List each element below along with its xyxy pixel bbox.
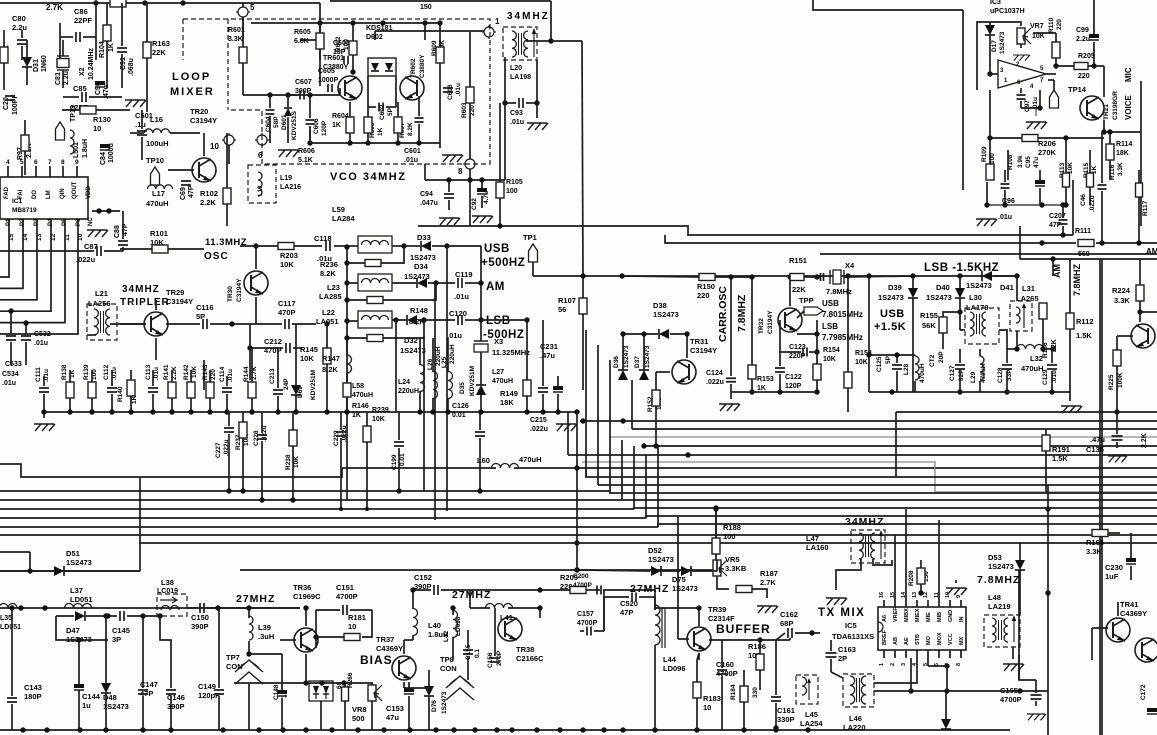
svg-text:1S2473: 1S2473 (441, 691, 448, 714)
svg-text:R203: R203 (280, 251, 298, 260)
svg-text:D601: D601 (281, 114, 288, 130)
svg-text:100uH: 100uH (146, 139, 169, 148)
svg-text:1S2473: 1S2473 (926, 293, 952, 302)
IC5 pins (883, 600, 885, 607)
svg-text:MIB: MIB (937, 612, 943, 622)
wire tr30 (255, 246, 257, 269)
svg-text:VREF: VREF (893, 607, 899, 622)
svg-text:D53: D53 (988, 553, 1002, 562)
svg-text:LM: LM (46, 190, 52, 199)
svg-text:.01u: .01u (998, 214, 1012, 221)
svg-text:C605: C605 (318, 68, 335, 75)
svg-text:R101: R101 (150, 229, 168, 238)
svg-text:.47u: .47u (1090, 435, 1105, 444)
svg-text:LA219: LA219 (988, 602, 1011, 611)
svg-text:C127: C127 (949, 365, 956, 381)
svg-text:D48: D48 (103, 693, 117, 702)
svg-text:330P: 330P (777, 715, 795, 724)
bus right y477 (586, 470, 1157, 477)
ecap C215b (553, 386, 563, 390)
svg-text:1S2473: 1S2473 (672, 584, 698, 593)
wire C86 (60, 36, 73, 38)
bus left y509 (0, 508, 634, 510)
bus left y412 (44, 411, 577, 413)
svg-text:C95: C95 (1025, 156, 1032, 168)
svg-text:P6: P6 (76, 218, 82, 226)
wire r209 row (470, 589, 540, 591)
svg-text:TP1: TP1 (523, 233, 537, 242)
svg-text:OSC: OSC (204, 251, 229, 262)
svg-text:D17: D17 (991, 40, 998, 52)
wire tr39 (678, 638, 689, 640)
pin 1 (482, 25, 496, 39)
wire L30 (960, 329, 965, 331)
svg-text:BUFFER: BUFFER (716, 622, 771, 636)
svg-text:C125: C125 (876, 356, 883, 372)
wire bottom y571 mid (240, 569, 717, 571)
svg-text:9: 9 (956, 595, 962, 598)
svg-text:VCC: VCC (948, 633, 954, 645)
svg-text:C152: C152 (414, 573, 432, 582)
diode rail 1S2473 (982, 271, 992, 281)
svg-text:L42: L42 (443, 630, 450, 642)
wire y253 right (820, 253, 1157, 255)
svg-text:AB: AB (893, 637, 899, 645)
svg-text:.01u: .01u (34, 340, 48, 347)
svg-text:2P: 2P (838, 654, 847, 663)
svg-text:220: 220 (1056, 19, 1063, 30)
svg-text:C230: C230 (1105, 563, 1123, 572)
svg-text:LOOP: LOOP (172, 71, 211, 83)
svg-text:C532: C532 (34, 331, 51, 338)
bottom rail dots (20, 727, 25, 732)
svg-text:L59: L59 (332, 205, 345, 214)
svg-text:R188: R188 (723, 523, 741, 532)
wire vco mid (424, 23, 426, 40)
svg-text:+500HZ: +500HZ (481, 257, 525, 269)
svg-text:10K: 10K (823, 356, 836, 363)
svg-text:R205: R205 (1078, 53, 1095, 60)
svg-text:TR32: TR32 (758, 318, 765, 334)
svg-text:TP10: TP10 (146, 156, 164, 165)
svg-text:C86: C86 (74, 7, 88, 16)
svg-text:560: 560 (1078, 251, 1090, 258)
svg-text:LSB -1.5KHZ: LSB -1.5KHZ (924, 262, 999, 274)
svg-text:TP14: TP14 (1068, 85, 1087, 94)
wire TP1 to rail (533, 275, 595, 277)
svg-text:NC: NC (88, 217, 94, 226)
svg-text:1: 1 (495, 17, 500, 26)
rail lsb bottom (869, 391, 1070, 393)
svg-text:3.3K: 3.3K (1117, 162, 1124, 176)
inductor L38 (161, 606, 179, 611)
svg-text:C3194Y: C3194Y (190, 116, 217, 125)
wire r206 (989, 90, 991, 180)
svg-text:7.8015MHz: 7.8015MHz (822, 310, 863, 319)
svg-text:C113: C113 (145, 364, 152, 380)
svg-text:22K: 22K (792, 285, 806, 294)
svg-text:R238: R238 (285, 454, 292, 470)
svg-text:R186: R186 (748, 642, 766, 651)
ground r187 (757, 606, 778, 613)
svg-text:220uH: 220uH (398, 388, 419, 395)
svg-text:1S2473: 1S2473 (66, 558, 92, 567)
svg-text:8.2K: 8.2K (322, 365, 338, 374)
svg-text:120P: 120P (321, 120, 328, 136)
svg-text:R140: R140 (117, 386, 124, 402)
svg-text:MIBX: MIBX (904, 608, 910, 622)
svg-text:LA254: LA254 (800, 719, 823, 728)
vertical x1141 (1140, 81, 1142, 226)
svg-text:LA198: LA198 (510, 74, 531, 81)
wire box3 (347, 320, 358, 322)
svg-text:27MHZ: 27MHZ (236, 593, 275, 605)
wire L20 left down (504, 103, 506, 180)
svg-text:470uH: 470uH (919, 363, 926, 383)
svg-text:R236: R236 (320, 260, 338, 269)
wire box2 (347, 282, 358, 284)
transistor TR right (1131, 324, 1155, 348)
wire L47 (836, 559, 861, 590)
svg-text:100PF: 100PF (12, 94, 19, 115)
svg-text:4: 4 (6, 159, 10, 166)
wire mid y241 (665, 235, 1076, 243)
svg-text:10K: 10K (191, 366, 198, 378)
svg-text:R225: R225 (1108, 374, 1115, 390)
filter verticals (434, 283, 436, 520)
bus left y535 (0, 534, 1157, 536)
zener box TR36 (309, 681, 333, 701)
svg-text:2.2u: 2.2u (1076, 36, 1090, 43)
bus jog y500 (622, 499, 1157, 501)
svg-text:VDD: VDD (86, 186, 92, 199)
svg-text:X2: X2 (79, 67, 86, 76)
svg-text:C228: C228 (253, 430, 260, 446)
svg-text:22K: 22K (152, 48, 166, 57)
svg-text:C161: C161 (777, 706, 795, 715)
svg-text:R154: R154 (823, 347, 840, 354)
svg-text:3.9k: 3.9k (1017, 155, 1024, 168)
svg-text:C114: C114 (219, 366, 226, 382)
svg-text:C3194Y: C3194Y (767, 310, 774, 334)
wire x30 up (29, 552, 31, 571)
svg-text:2.2K: 2.2K (1141, 433, 1148, 448)
svg-text:8.2K: 8.2K (407, 122, 414, 136)
svg-text:BIAS: BIAS (360, 653, 393, 667)
resistor R112 1.5K (1066, 313, 1074, 329)
wire left voice (813, 0, 963, 10)
wire tr right (1139, 312, 1141, 322)
svg-text:FAI: FAI (18, 189, 24, 199)
wire usb corner (447, 245, 481, 247)
svg-text:500: 500 (352, 714, 365, 723)
svg-text:R138: R138 (61, 364, 68, 380)
svg-text:47P: 47P (1049, 222, 1062, 229)
svg-text:-500HZ: -500HZ (483, 329, 524, 341)
svg-text:6: 6 (34, 159, 38, 166)
svg-text:1.5K: 1.5K (1076, 331, 1092, 340)
svg-text:47P: 47P (620, 608, 633, 617)
svg-text:C607: C607 (295, 79, 312, 86)
svg-text:3.3K: 3.3K (1086, 547, 1102, 556)
transformer L20 (512, 28, 536, 57)
rail 7.8mhz y276 (595, 275, 1017, 277)
svg-text:MB8719: MB8719 (12, 207, 37, 214)
wire d47 loop (56, 616, 79, 640)
svg-text:KDV251M: KDV251M (469, 366, 476, 396)
svg-text:+1.5K: +1.5K (874, 321, 906, 333)
svg-text:R239: R239 (372, 407, 389, 414)
wire VCO out (439, 23, 441, 47)
svg-text:C227: C227 (215, 442, 222, 458)
svg-text:C88: C88 (114, 225, 121, 238)
pin 6 (255, 133, 269, 147)
svg-text:330: 330 (752, 687, 759, 698)
svg-text:.01u: .01u (227, 369, 234, 382)
svg-text:L30: L30 (969, 293, 982, 302)
svg-text:L40: L40 (428, 621, 441, 630)
ground loop mixer (125, 100, 146, 107)
svg-text:10: 10 (93, 124, 101, 133)
svg-text:D37: D37 (634, 356, 641, 368)
svg-text:.01u: .01u (455, 83, 462, 96)
svg-text:LD051: LD051 (0, 624, 21, 631)
svg-text:R142: R142 (183, 364, 190, 380)
wire ic5 pins down (910, 658, 912, 691)
svg-text:1S2473: 1S2473 (966, 281, 992, 290)
svg-text:KDS181: KDS181 (366, 25, 393, 32)
vertical x1073 (1072, 180, 1074, 235)
dashed box L20 (503, 27, 537, 60)
svg-text:10K: 10K (293, 456, 300, 468)
svg-text:C69: C69 (180, 187, 187, 200)
ground R208 right (946, 588, 967, 595)
wire c152 right (469, 590, 471, 608)
svg-text:MIXER: MIXER (170, 86, 215, 98)
svg-text:C80: C80 (12, 14, 26, 23)
bus right y492 gray (935, 491, 1157, 493)
svg-text:3.3K: 3.3K (1114, 296, 1130, 305)
vertical x140 (139, 477, 141, 571)
svg-text:6.8K: 6.8K (294, 38, 309, 45)
wire tr37 (370, 667, 394, 669)
svg-text:C3194Y: C3194Y (690, 346, 717, 355)
IC IC1 MB8719 (0, 177, 88, 219)
svg-text:AE: AE (904, 637, 910, 645)
svg-text:D76: D76 (431, 700, 438, 712)
wire y412 right (896, 411, 1157, 413)
svg-text:L22: L22 (322, 308, 335, 317)
svg-text:1u: 1u (82, 701, 91, 710)
svg-text:1S2473: 1S2473 (648, 555, 674, 564)
svg-text:R145: R145 (300, 345, 318, 354)
svg-text:68P: 68P (780, 619, 793, 628)
filter box L22 (358, 311, 392, 328)
svg-text:470uH: 470uH (146, 199, 169, 208)
svg-text:470P: 470P (278, 308, 296, 317)
dashed box L48 (984, 615, 1020, 647)
svg-text:C97: C97 (1024, 100, 1031, 112)
svg-text:1S2473: 1S2473 (644, 345, 651, 368)
bus L60 line (342, 467, 496, 469)
dashed box L38 (157, 594, 187, 616)
wire ic5 pins up (894, 535, 896, 600)
svg-text:C119: C119 (455, 270, 473, 279)
wire tr41 (1092, 627, 1108, 629)
svg-text:IN: IN (959, 616, 965, 622)
svg-text:R184: R184 (730, 684, 737, 700)
transformer L21 (94, 309, 110, 335)
svg-text:C200: C200 (573, 573, 589, 580)
svg-text:L32: L32 (1030, 354, 1043, 363)
vertical x577 (576, 412, 578, 571)
svg-text:R149: R149 (500, 389, 518, 398)
svg-text:C157: C157 (577, 611, 594, 618)
svg-text:C151: C151 (336, 583, 354, 592)
bus right y446 (644, 445, 1157, 447)
wire tr21 (1103, 66, 1105, 97)
pin 8 (463, 157, 477, 171)
svg-text:1S2473: 1S2473 (878, 293, 904, 302)
svg-text:18K: 18K (500, 398, 514, 407)
svg-text:10K: 10K (300, 354, 314, 363)
svg-text:1K: 1K (332, 122, 341, 129)
svg-text:C93: C93 (510, 110, 523, 117)
svg-text:C135: C135 (1086, 445, 1104, 454)
wire op out (1094, 65, 1104, 67)
svg-text:2.2K: 2.2K (200, 198, 216, 207)
wire tr31 base (656, 371, 670, 373)
svg-text:220: 220 (1078, 73, 1090, 80)
svg-text:C4369Y: C4369Y (376, 644, 403, 653)
ground C111 (34, 424, 55, 431)
svg-text:C81: C81 (55, 72, 62, 85)
bus right y421 (580, 420, 1157, 422)
svg-text:LA216: LA216 (280, 184, 301, 191)
svg-text:.01u: .01u (404, 157, 418, 164)
svg-text:5P: 5P (387, 107, 394, 116)
svg-text:5: 5 (20, 159, 24, 166)
vertical x1102 (1101, 259, 1103, 735)
svg-text:4700P: 4700P (577, 620, 598, 627)
svg-text:C94: C94 (420, 191, 433, 198)
wire c162 right (795, 632, 820, 634)
svg-text:C215: C215 (530, 417, 547, 424)
wire tr39 em2 (697, 653, 699, 660)
bus left y477 (0, 464, 342, 477)
svg-text:7.7985MHz: 7.7985MHz (822, 333, 863, 342)
svg-text:L16: L16 (150, 115, 163, 124)
transformer L46 (843, 674, 874, 707)
dashed box L31 (1010, 301, 1032, 331)
svg-text:34MHZ: 34MHZ (845, 516, 884, 528)
svg-text:8.2K: 8.2K (320, 269, 336, 278)
transformer L48 (992, 615, 1016, 642)
svg-text:LD096: LD096 (663, 664, 686, 673)
wire TR20 (203, 133, 205, 156)
vertical x622b (621, 440, 623, 500)
svg-text:TPP: TPP (799, 296, 814, 305)
dashed box L47 (851, 530, 885, 563)
svg-text:C144: C144 (82, 692, 101, 701)
svg-text:390P: 390P (191, 622, 209, 631)
svg-text:C153: C153 (386, 704, 404, 713)
bus left y518 (0, 517, 646, 519)
svg-text:1S2473: 1S2473 (999, 31, 1006, 54)
svg-text:R603: R603 (461, 102, 468, 118)
wire bottom y571 left (0, 570, 140, 572)
svg-text:L46: L46 (849, 714, 862, 723)
diode bottom right (941, 719, 951, 729)
inductor L45 (802, 677, 807, 695)
ground C135 (1108, 456, 1127, 462)
svg-text:11.325MHz: 11.325MHz (492, 348, 530, 357)
svg-text:X3: X3 (494, 337, 503, 346)
svg-text:C172: C172 (1140, 684, 1147, 700)
ground C96 (976, 219, 997, 226)
vertical x646 (645, 455, 647, 518)
svg-text:1K: 1K (108, 43, 115, 52)
svg-text:C99: C99 (1076, 27, 1089, 34)
bus jog y518 (646, 516, 1157, 518)
wire vr5 r187 (717, 576, 729, 589)
svg-text:D31: D31 (33, 59, 40, 72)
svg-text:R148: R148 (410, 306, 428, 315)
op-amp U3 triangle (998, 60, 1046, 88)
svg-text:R606: R606 (298, 148, 315, 155)
svg-text:MIC: MIC (1124, 67, 1133, 82)
pin 10 (222, 133, 236, 147)
svg-text:R141: R141 (163, 364, 170, 380)
svg-text:R151: R151 (789, 256, 807, 265)
svg-text:C46: C46 (1080, 194, 1087, 206)
svg-text:CT2: CT2 (929, 354, 936, 367)
svg-text:.022u: .022u (76, 255, 96, 264)
svg-text:10: 10 (348, 622, 356, 631)
svg-text:R266: R266 (347, 672, 354, 688)
wire tpp (797, 311, 804, 318)
svg-text:.01u: .01u (454, 292, 469, 301)
svg-text:R155: R155 (920, 311, 938, 320)
wire top VCO feed (330, 0, 551, 2)
svg-text:10: 10 (703, 703, 711, 712)
svg-text:R153: R153 (757, 376, 774, 383)
svg-text:22PF: 22PF (74, 16, 92, 25)
bus jog y527 (658, 524, 1157, 527)
svg-text:C212: C212 (264, 337, 282, 346)
wire c146 up (160, 616, 171, 660)
svg-text:L29: L29 (970, 371, 977, 383)
dashed box VCO (183, 19, 490, 164)
svg-text:R146: R146 (352, 403, 369, 410)
svg-text:LA284: LA284 (332, 214, 355, 223)
svg-text:R143: R143 (202, 364, 209, 380)
bus left y500 (0, 499, 622, 501)
svg-text:100: 100 (989, 153, 996, 164)
svg-text:C116: C116 (196, 303, 214, 312)
wire r188 up (715, 508, 717, 538)
svg-text:TR30: TR30 (227, 286, 234, 302)
svg-text:C3880Y: C3880Y (419, 54, 426, 78)
vertical x598 (597, 345, 599, 440)
svg-text:C1969C: C1969C (293, 592, 321, 601)
svg-text:1: 1 (879, 663, 885, 666)
svg-text:3P: 3P (112, 635, 121, 644)
svg-text:16: 16 (879, 592, 885, 598)
svg-text:D52: D52 (648, 546, 662, 555)
svg-text:R112: R112 (1076, 317, 1094, 326)
svg-text:2.7K: 2.7K (760, 578, 776, 587)
